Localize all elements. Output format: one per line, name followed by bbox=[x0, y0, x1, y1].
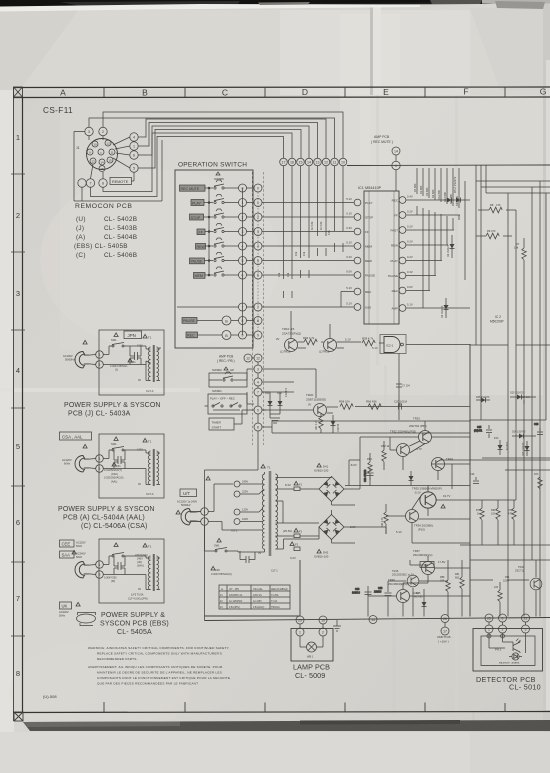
switch SW1-C bbox=[114, 437, 118, 441]
svg-text:CL- 5010: CL- 5010 bbox=[509, 683, 541, 692]
svg-text:2: 2 bbox=[99, 573, 101, 577]
svg-text:12: 12 bbox=[246, 357, 250, 361]
wire nested top right bbox=[465, 166, 550, 421]
pull-up resistor R3 bbox=[427, 168, 431, 291]
vertical fold top bbox=[370, 0, 373, 95]
svg-text:MAINTENIR LE DEGRE DE SECU: MAINTENIR LE DEGRE DE SECURITE DE L'APPA… bbox=[97, 671, 222, 675]
svg-text:100V: 100V bbox=[242, 517, 248, 521]
transistor TR33 bbox=[419, 431, 432, 444]
pin 9 bbox=[87, 149, 93, 155]
svg-text:2: 2 bbox=[99, 467, 101, 471]
svg-text:TIMER: TIMER bbox=[212, 421, 222, 425]
svg-text:2SD794 (P55): 2SD794 (P55) bbox=[409, 424, 427, 428]
svg-text:R58 104: R58 104 bbox=[339, 400, 350, 404]
wire TR37 bbox=[410, 556, 470, 583]
svg-text:5.1V: 5.1V bbox=[346, 302, 352, 306]
svg-text:13: 13 bbox=[316, 161, 320, 165]
detector inner box bbox=[481, 636, 535, 666]
svg-text:5.6k: 5.6k bbox=[327, 229, 331, 235]
wire node3 feed bbox=[294, 369, 316, 398]
svg-text:MA-8H41E · AGA89L: MA-8H41E · AGA89L bbox=[499, 662, 521, 665]
svg-text:TR16: TR16 bbox=[392, 569, 399, 573]
svg-text:14: 14 bbox=[394, 150, 398, 154]
svg-text:RECOMMENDED PARTS.: RECOMMENDED PARTS. bbox=[97, 657, 138, 661]
wire bus from remocon to switch contacts bbox=[103, 112, 343, 158]
svg-text:REC: REC bbox=[187, 334, 195, 338]
svg-text:R1 680: R1 680 bbox=[413, 183, 417, 192]
wire node1 drop to IC1 bbox=[395, 170, 397, 191]
svg-text:60Hz: 60Hz bbox=[64, 462, 71, 466]
svg-text:T1.25A: T1.25A bbox=[271, 594, 279, 597]
diode D24h bbox=[512, 431, 536, 439]
resistor R7 10k bbox=[514, 238, 526, 268]
node 1 bbox=[96, 455, 104, 463]
capacitor C33 bbox=[364, 468, 374, 486]
transformer T1-C bbox=[143, 438, 147, 442]
pull-up resistor R1 bbox=[415, 168, 419, 215]
svg-text:SAA: SAA bbox=[62, 553, 71, 558]
svg-text:28V: 28V bbox=[422, 563, 429, 567]
svg-text:8: 8 bbox=[102, 182, 104, 186]
frame left outer line bbox=[13, 87, 15, 721]
svg-text:5: 5 bbox=[133, 167, 135, 171]
svg-text:6: 6 bbox=[16, 518, 20, 527]
svg-text:0.5A(JPN): 0.5A(JPN) bbox=[229, 606, 240, 609]
pull-up resistor R4 bbox=[433, 168, 437, 276]
node contact 11 bbox=[331, 158, 339, 166]
svg-text:AMP PCB: AMP PCB bbox=[219, 355, 233, 359]
svg-text:15: 15 bbox=[108, 158, 112, 162]
svg-text:CLT-4: CLT-4 bbox=[146, 389, 154, 393]
svg-text:PAUSE: PAUSE bbox=[183, 319, 196, 323]
pin 11 bbox=[109, 149, 115, 155]
svg-text:CLT-1: CLT-1 bbox=[271, 570, 278, 573]
diode D23v bbox=[522, 441, 530, 456]
staircase resistor R9 bbox=[281, 166, 285, 298]
svg-text:100/6.3: 100/6.3 bbox=[352, 592, 361, 595]
svg-text:C31: C31 bbox=[116, 465, 121, 468]
svg-text:12: 12 bbox=[256, 357, 260, 361]
svg-text:15: 15 bbox=[299, 161, 303, 165]
node 13 bbox=[369, 616, 377, 624]
wire ladder right dashed thread bbox=[257, 192, 259, 331]
label T1 main bbox=[261, 464, 265, 468]
svg-text:T1.6A: T1.6A bbox=[271, 600, 278, 603]
svg-text:0.022/250VAC(S): 0.022/250VAC(S) bbox=[104, 477, 124, 480]
svg-text:C: C bbox=[222, 88, 228, 98]
svg-text:(C) CL-5406A (CSA): (C) CL-5406A (CSA) bbox=[81, 523, 148, 530]
svg-text:8.3V: 8.3V bbox=[285, 483, 291, 487]
resistor R72 bbox=[508, 500, 516, 545]
main syscon box bbox=[205, 560, 301, 616]
capacitor C18 bbox=[374, 587, 392, 602]
svg-text:SVB10-100: SVB10-100 bbox=[314, 469, 329, 473]
svg-text:AVERTISSEMENT: ΔIL INDIQU LE: AVERTISSEMENT: ΔIL INDIQU LES COMPOSANTS… bbox=[88, 665, 223, 669]
fuse table bbox=[219, 585, 290, 609]
diode D16 bbox=[409, 471, 414, 486]
transistor TR20 bbox=[314, 404, 327, 417]
svg-text:TR10 ,15: TR10 ,15 bbox=[282, 327, 295, 331]
svg-text:B: B bbox=[225, 319, 228, 323]
svg-text:4: 4 bbox=[133, 136, 135, 140]
wire bridge1 bbox=[319, 477, 360, 506]
svg-text:R3A 680: R3A 680 bbox=[449, 193, 453, 204]
transistor TR10 bbox=[285, 339, 298, 352]
svg-text:T1: T1 bbox=[267, 466, 271, 470]
svg-text:SW902: SW902 bbox=[212, 368, 222, 372]
node 2 bbox=[201, 518, 209, 526]
transistor TR35 bbox=[420, 492, 436, 508]
wire TR35 bbox=[412, 486, 470, 517]
transistor TR34b bbox=[406, 510, 419, 523]
svg-text:SVB10-100: SVB10-100 bbox=[314, 555, 329, 559]
svg-text:50Hz: 50Hz bbox=[76, 544, 83, 548]
svg-text:2: 2 bbox=[102, 130, 104, 134]
svg-text:REC MUTE: REC MUTE bbox=[181, 187, 200, 191]
frame top band line 1 bbox=[13, 86, 550, 89]
svg-text:0.3V: 0.3V bbox=[407, 270, 413, 274]
svg-text:D: D bbox=[302, 87, 308, 97]
svg-text:0.01/250VAC(T): 0.01/250VAC(T) bbox=[104, 469, 122, 472]
svg-text:3: 3 bbox=[16, 289, 20, 298]
node 2 bbox=[96, 465, 104, 473]
switch SW1 main bbox=[217, 538, 221, 542]
node 3 bbox=[85, 127, 93, 135]
svg-text:0.1V: 0.1V bbox=[346, 212, 352, 216]
label REMOTE bbox=[110, 178, 132, 185]
svg-text:2: 2 bbox=[16, 211, 20, 220]
svg-text:POWER SUPPLY &: POWER SUPPLY & bbox=[101, 612, 165, 619]
svg-text:2SA733(P)(Q): 2SA733(P)(Q) bbox=[282, 332, 301, 336]
svg-text:CL- 5403B: CL- 5403B bbox=[104, 225, 137, 232]
svg-text:STOP: STOP bbox=[191, 216, 201, 220]
svg-text:START: START bbox=[212, 426, 222, 430]
svg-text:5.1V: 5.1V bbox=[346, 286, 352, 290]
svg-text:REMOTE: REMOTE bbox=[112, 180, 129, 184]
svg-text:470: 470 bbox=[496, 203, 501, 207]
svg-text:0: 0 bbox=[257, 187, 259, 191]
svg-text:FAST: FAST bbox=[390, 229, 398, 233]
node 2 bbox=[96, 361, 104, 369]
transistor TR32 bbox=[397, 444, 410, 457]
svg-text:ΔP: ΔP bbox=[230, 368, 234, 372]
svg-text:CSA , AAL: CSA , AAL bbox=[62, 434, 83, 439]
frame top band line 2 bbox=[13, 96, 550, 99]
svg-text:12: 12 bbox=[324, 161, 328, 165]
resistor R62 bbox=[381, 441, 390, 470]
lamp WB1 bbox=[307, 642, 317, 652]
svg-text:1S2473: 1S2473 bbox=[337, 423, 340, 432]
corner smudge top-left bbox=[0, 8, 80, 90]
svg-text:CL- 5404B: CL- 5404B bbox=[104, 234, 137, 241]
switch row REW bbox=[196, 238, 263, 250]
svg-text:AC100V: AC100V bbox=[63, 354, 73, 358]
svg-text:0.0047/250VAC(C): 0.0047/250VAC(C) bbox=[211, 573, 232, 576]
pin 15 bbox=[107, 157, 113, 163]
IC1 left pin names bbox=[365, 201, 375, 310]
node 8 bbox=[99, 179, 107, 187]
wire tr bases bbox=[291, 311, 361, 348]
bottom tick marks bbox=[104, 702, 505, 712]
svg-text:(W): (W) bbox=[111, 580, 115, 583]
node 4 bbox=[130, 133, 138, 141]
svg-text:5.1V: 5.1V bbox=[372, 346, 378, 350]
lamp pcb box bbox=[291, 629, 333, 662]
resistor R81 bbox=[455, 568, 464, 617]
module box C bbox=[99, 434, 164, 498]
svg-text:( REC / PB ): ( REC / PB ) bbox=[217, 359, 235, 363]
svg-text:(25.6V): (25.6V) bbox=[283, 529, 292, 533]
svg-text:PAUSE: PAUSE bbox=[388, 274, 398, 278]
svg-text:12: 12 bbox=[106, 141, 110, 145]
svg-text:0.2V: 0.2V bbox=[407, 240, 413, 244]
svg-text:REC: REC bbox=[365, 290, 372, 294]
ground sym bus bbox=[333, 620, 341, 631]
svg-text:11: 11 bbox=[110, 150, 113, 154]
svg-text:FF: FF bbox=[365, 230, 369, 234]
svg-text:17.8V: 17.8V bbox=[438, 560, 445, 564]
wire TR34b bbox=[360, 509, 470, 543]
svg-text:1S2473: 1S2473 bbox=[284, 387, 288, 397]
detector contacts top bbox=[485, 614, 493, 622]
corner X box bottom-left bbox=[14, 712, 23, 721]
staircase resistor R15 bbox=[332, 166, 336, 252]
wire gate drop c7 bbox=[396, 354, 402, 421]
svg-text:2SC2603(E)(G): 2SC2603(E)(G) bbox=[388, 582, 407, 586]
svg-text:19.7V: 19.7V bbox=[443, 494, 450, 498]
frame left inner line bbox=[22, 97, 24, 712]
switch SW1-E bbox=[114, 543, 118, 547]
wire secondary taps bbox=[276, 478, 320, 550]
svg-text:IC2-1: IC2-1 bbox=[386, 344, 394, 348]
svg-text:(EBS) CL- 5405B: (EBS) CL- 5405B bbox=[74, 243, 128, 250]
gate IC2-1 bbox=[380, 335, 406, 354]
svg-text:2.2V: 2.2V bbox=[350, 525, 356, 529]
switch row PAUSE lamp bbox=[182, 316, 262, 325]
svg-text:(C): (C) bbox=[76, 252, 86, 259]
svg-text:10k: 10k bbox=[294, 251, 298, 256]
warning text bbox=[88, 646, 230, 686]
fuse F2 bbox=[294, 528, 303, 537]
wire C module bbox=[103, 450, 146, 469]
svg-text:R3 680: R3 680 bbox=[425, 187, 429, 196]
svg-text:10k: 10k bbox=[277, 272, 281, 277]
svg-text:CS-F11: CS-F11 bbox=[43, 106, 73, 115]
svg-text:0V: 0V bbox=[308, 403, 311, 407]
label CEE bbox=[60, 540, 75, 547]
pull-up resistor R2 bbox=[421, 168, 425, 308]
svg-text:SW901: SW901 bbox=[212, 389, 222, 393]
pin c bbox=[98, 149, 104, 155]
svg-text:14: 14 bbox=[100, 160, 104, 164]
pin 14 bbox=[99, 159, 105, 165]
svg-text:C33 470/10: C33 470/10 bbox=[364, 469, 367, 482]
wire node14 stub bbox=[395, 155, 397, 161]
svg-text:1: 1 bbox=[16, 133, 20, 142]
svg-text:PAUSE: PAUSE bbox=[365, 274, 375, 278]
svg-text:REW: REW bbox=[391, 244, 398, 248]
pin 13 bbox=[90, 158, 96, 164]
label D25 bbox=[476, 396, 490, 403]
svg-text:(U)-508: (U)-508 bbox=[43, 694, 57, 699]
svg-text:11: 11 bbox=[333, 161, 337, 165]
svg-text:5.1V: 5.1V bbox=[346, 197, 352, 201]
bottom scanner bar bbox=[0, 720, 550, 773]
plug C bbox=[75, 456, 89, 472]
ground sym mid bbox=[270, 418, 280, 423]
pull-up resistor R1A bbox=[439, 168, 443, 261]
phototransistor PH1 bbox=[513, 639, 526, 654]
ladder node 9 bbox=[254, 406, 262, 414]
svg-text:USS: USS bbox=[365, 306, 371, 310]
svg-text:2: 2 bbox=[99, 363, 101, 367]
capacitor C31-E bbox=[118, 562, 121, 570]
detector inner pins bbox=[487, 634, 491, 638]
svg-text:2SC711: 2SC711 bbox=[515, 569, 525, 573]
svg-text:C31: C31 bbox=[131, 361, 136, 364]
svg-text:10: 10 bbox=[341, 161, 345, 165]
node 2 bbox=[99, 127, 107, 135]
module box E bbox=[99, 539, 164, 603]
IC1 left pin circles bbox=[354, 199, 361, 310]
svg-text:B: B bbox=[142, 88, 148, 98]
node contact 14 bbox=[305, 158, 313, 166]
svg-text:1A,125/250V: 1A,125/250V bbox=[229, 600, 243, 603]
corner X box top-left bbox=[14, 87, 23, 97]
resistor R88 bbox=[440, 570, 450, 617]
svg-text:1k 5.6k: 1k 5.6k bbox=[310, 221, 314, 230]
svg-text:4: 4 bbox=[257, 381, 259, 385]
switch row PAUSE bbox=[190, 253, 263, 265]
svg-text:0.0047/250VAC: 0.0047/250VAC bbox=[110, 365, 128, 368]
svg-text:17: 17 bbox=[282, 161, 286, 165]
resistor R71 bbox=[476, 500, 484, 545]
svg-text:(P10): (P10) bbox=[418, 528, 425, 532]
svg-text:D5,6 1S2473: D5,6 1S2473 bbox=[453, 176, 457, 193]
svg-text:U/T: U/T bbox=[183, 491, 190, 496]
node 1 bbox=[96, 561, 104, 569]
svg-text:10k: 10k bbox=[514, 246, 519, 250]
svg-text:COMPOSANTS DONT LE FONCTION: COMPOSANTS DONT LE FONCTIONNEMENT EST CR… bbox=[97, 676, 230, 680]
svg-text:16: 16 bbox=[290, 161, 294, 165]
svg-text:D25 1S2473: D25 1S2473 bbox=[510, 392, 524, 395]
lamp contacts bbox=[296, 628, 304, 636]
svg-text:T1: T1 bbox=[148, 545, 152, 549]
svg-text:0.2V: 0.2V bbox=[346, 255, 352, 259]
svg-text:D24 1S2473: D24 1S2473 bbox=[512, 431, 526, 434]
svg-text:3: 3 bbox=[88, 130, 90, 134]
svg-text:POWER SUPPLY & SYSCON: POWER SUPPLY & SYSCON bbox=[58, 506, 155, 513]
svg-text:C38: C38 bbox=[215, 569, 220, 572]
capacitor C31-J bbox=[135, 352, 138, 360]
wire taps to coil bbox=[240, 484, 263, 522]
svg-text:B: B bbox=[225, 334, 228, 338]
wire ladder column bus bbox=[242, 188, 244, 335]
column dividers top bbox=[104, 87, 505, 97]
svg-text:D13: D13 bbox=[494, 437, 499, 440]
top scanner bar bbox=[0, 0, 550, 12]
svg-text:2SC2603(E)(G): 2SC2603(E)(G) bbox=[413, 553, 432, 557]
svg-text:SW1: SW1 bbox=[214, 544, 220, 548]
pin 10 bbox=[92, 141, 98, 147]
wire pcb boundary dashed bbox=[252, 172, 263, 445]
diode D6b bbox=[447, 235, 455, 258]
switch row MEM bbox=[194, 267, 263, 279]
resistor R61 bbox=[315, 414, 323, 434]
transformer main primary coil bbox=[262, 472, 264, 552]
svg-text:( REC MUTE ): ( REC MUTE ) bbox=[371, 140, 393, 144]
label 28V bbox=[420, 562, 434, 568]
svg-text:3: 3 bbox=[257, 368, 259, 372]
resistor R6 470 bbox=[476, 229, 512, 239]
node contact 13 bbox=[314, 158, 322, 166]
wire main bus to right edge bbox=[347, 164, 550, 167]
svg-text:D9 1S2473: D9 1S2473 bbox=[441, 305, 444, 318]
svg-text:CEE: CEE bbox=[62, 542, 71, 547]
capacitor C25 bbox=[474, 425, 492, 438]
svg-text:0.5A(AGC): 0.5A(AGC) bbox=[253, 606, 264, 609]
svg-text:R1A 680: R1A 680 bbox=[437, 189, 441, 200]
wire J module bbox=[103, 346, 146, 365]
detector pcb box bbox=[473, 629, 543, 672]
node 17 amp bbox=[441, 627, 449, 635]
svg-text:1: 1 bbox=[99, 353, 101, 357]
switch row FF bbox=[197, 224, 262, 236]
node 1 bbox=[201, 508, 209, 516]
svg-text:50Hz: 50Hz bbox=[76, 555, 83, 559]
svg-text:WB 1: WB 1 bbox=[307, 655, 314, 659]
svg-text:10k: 10k bbox=[302, 251, 306, 256]
ladder node 7 bbox=[254, 388, 262, 396]
diode D15 bbox=[414, 592, 427, 612]
voltage selector taps bbox=[234, 480, 248, 488]
svg-text:F: F bbox=[463, 87, 468, 97]
svg-text:SW1: SW1 bbox=[111, 338, 117, 342]
wire amp row extend bbox=[424, 307, 470, 309]
svg-text:QUE PAR DES PIECES RECOMMA: QUE PAR DES PIECES RECOMMANDEES PAR LE F… bbox=[97, 682, 198, 686]
transistor TR15 bbox=[324, 339, 337, 352]
svg-text:R64 4.7k: R64 4.7k bbox=[381, 517, 384, 527]
svg-text:25: 25 bbox=[487, 617, 491, 621]
switch row STOP bbox=[190, 209, 263, 221]
svg-text:2SB711(EBS5): 2SB711(EBS5) bbox=[306, 398, 326, 402]
svg-text:R6 470: R6 470 bbox=[487, 229, 496, 233]
svg-text:AC120V 1a 240V: AC120V 1a 240V bbox=[177, 500, 197, 504]
svg-text:T1: T1 bbox=[148, 440, 152, 444]
svg-text:0V: 0V bbox=[138, 483, 141, 486]
svg-text:TR20: TR20 bbox=[306, 393, 314, 397]
svg-text:CL- 5402B: CL- 5402B bbox=[104, 216, 137, 223]
node 1 on bus bbox=[392, 161, 400, 169]
transistor TR37 bbox=[422, 562, 435, 575]
node blank bbox=[78, 179, 86, 187]
node 5 bbox=[130, 164, 138, 172]
svg-text:C24 104: C24 104 bbox=[521, 396, 531, 399]
resistor R63 bbox=[367, 453, 372, 480]
wire node 8 to contact bbox=[103, 133, 292, 192]
resistor R8 470 bbox=[478, 203, 516, 213]
node 2 bbox=[96, 571, 104, 579]
svg-text:103: 103 bbox=[491, 513, 496, 516]
row numbers bbox=[16, 133, 20, 678]
node contact 12 bbox=[322, 158, 330, 166]
transformer T1-J bbox=[143, 334, 147, 338]
wire rows opswitch to IC1 left pins bbox=[262, 203, 354, 308]
plug E bbox=[75, 562, 89, 578]
wire node 7 to contact bbox=[91, 137, 284, 197]
svg-text:(L)TR15: (L)TR15 bbox=[319, 350, 330, 354]
column letters bbox=[60, 87, 546, 98]
